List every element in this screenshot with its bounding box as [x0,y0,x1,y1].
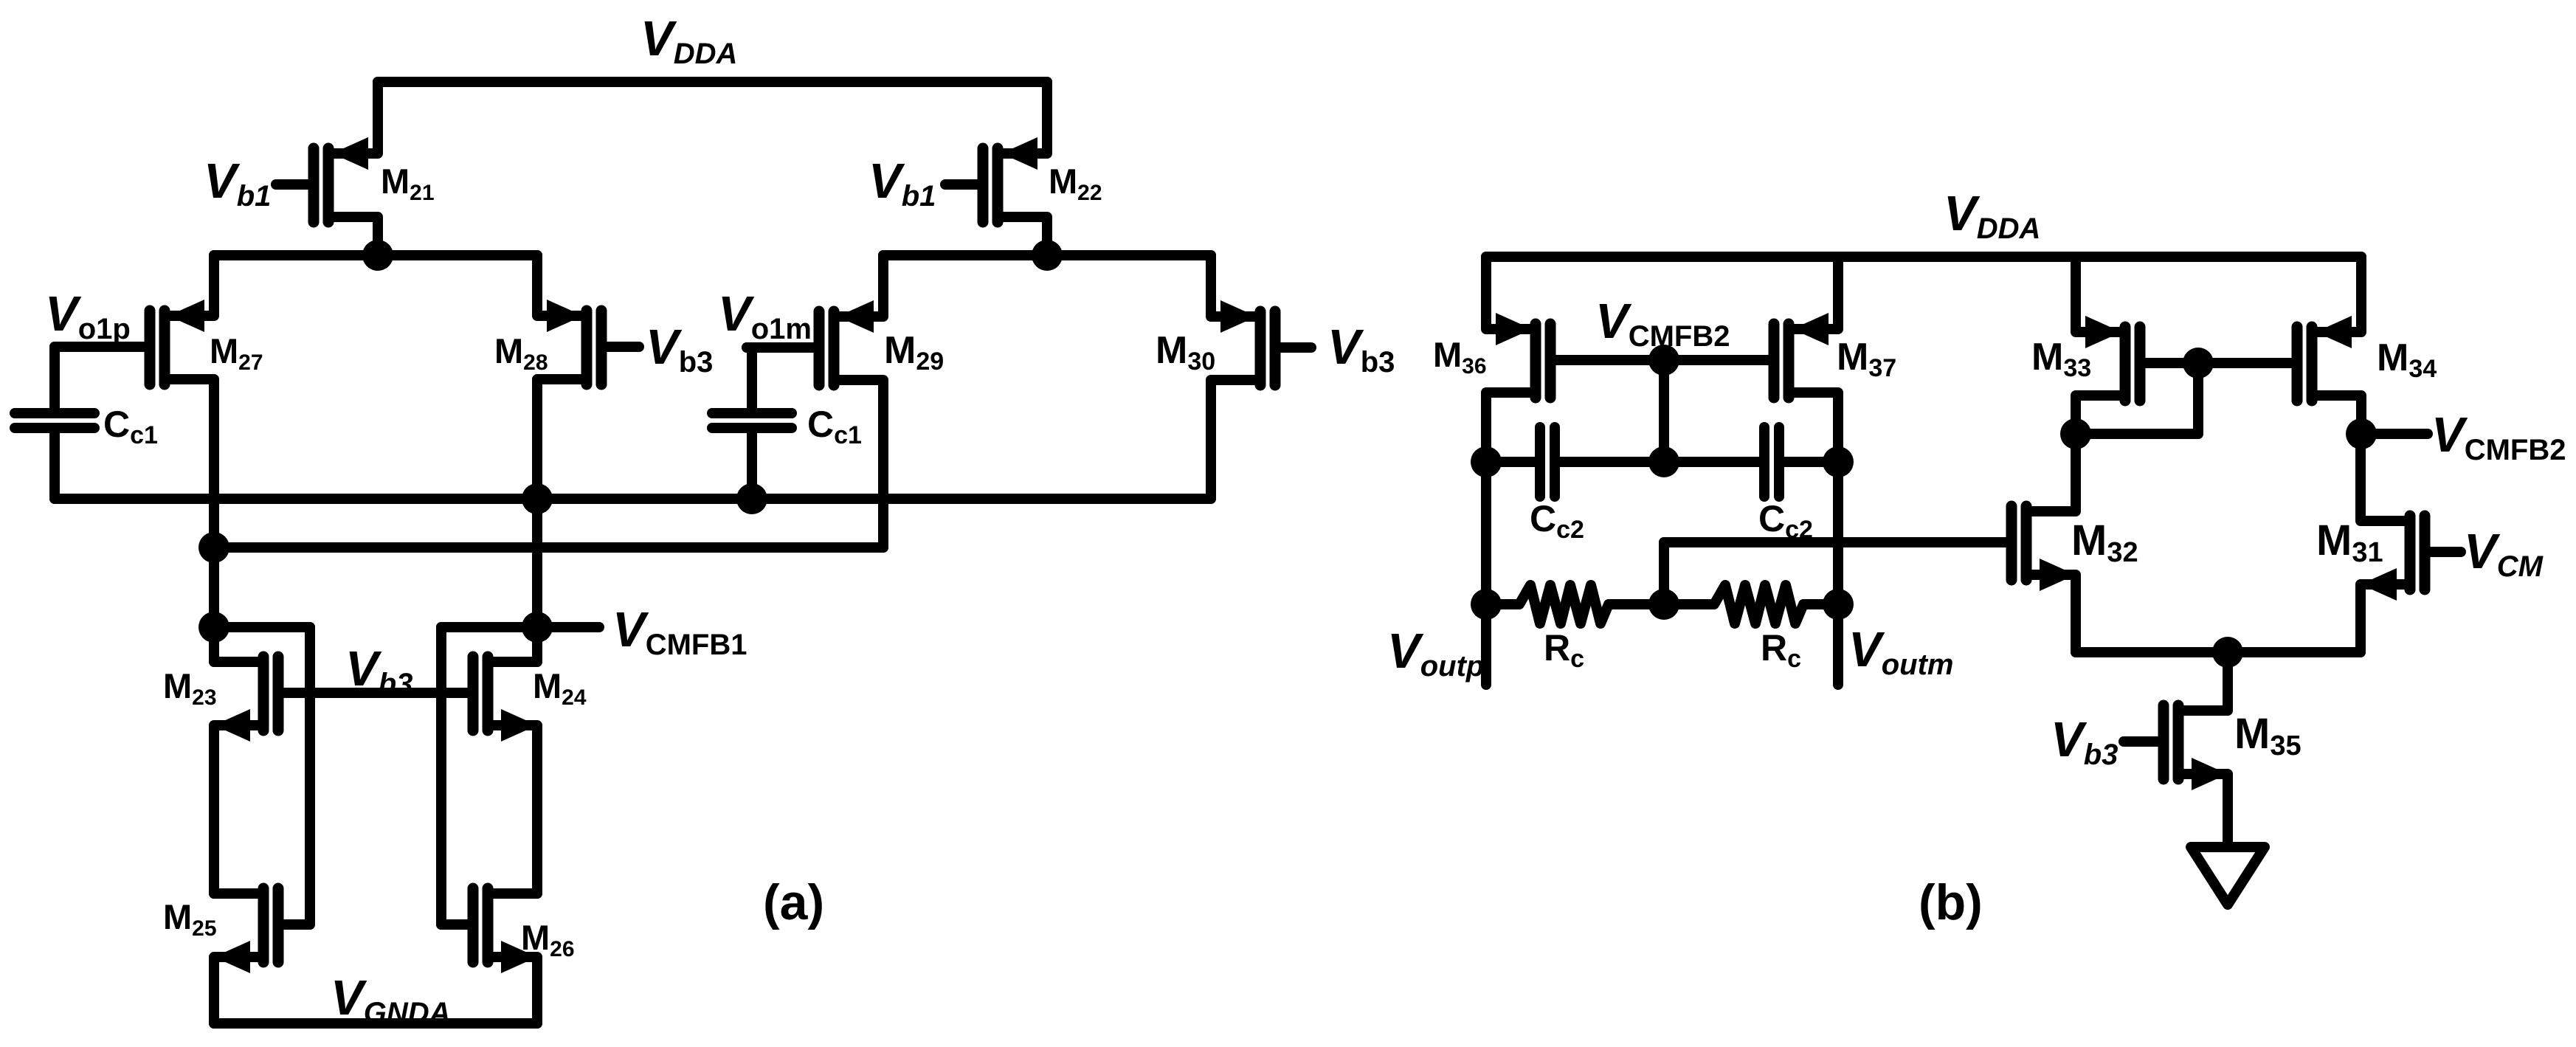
junction M24 drain / VCMFB1 node [522,612,553,643]
wire Rc midpoint to M32 gate (vertical) [1659,542,1669,604]
junction M34 drain / VCMFB2 output [2346,418,2377,449]
wire VDDA rail (a) [378,77,1047,87]
wire tail node [2076,647,2361,657]
junction Cc2 midpoint [1648,446,1679,477]
svg-text:(a): (a) [763,874,824,930]
transistor M21 [276,82,378,255]
capacitor Cc1 (right) [712,413,792,428]
wire M33 gate-drain link (horizontal) [2076,429,2198,439]
svg-text:(b): (b) [1919,874,1983,930]
wire VCMFB2 output stub [2361,429,2428,439]
wire Voutp column [1481,462,1491,685]
transistor M28 [537,255,639,662]
wire M23 drain to M25 gate link (horizontal) [214,622,310,632]
wire M33 gate-drain link (vertical) [2193,363,2203,434]
wire Voutp to Cc2 left [1486,457,1540,467]
junction M28 drain / output rail [522,483,553,514]
transistor M26 [441,888,537,1023]
wire Voutm column [1833,462,1843,685]
junction M27 drain / cross rail [198,532,229,563]
wire Cc2 left to Cc2 right [1555,457,1764,467]
wire VCMFB2 to Cc2 midpoint [1659,360,1669,462]
wire Vo1m to M29 gate [747,342,814,353]
junction M33 drain / M32 drain [2060,418,2091,449]
wire M26 gate link (vertical) [436,627,446,925]
wire Cc1 right to output rail [747,432,757,499]
junction tail node / M35 drain [2212,637,2243,668]
junction M21 drain / first-stage rail [362,240,393,271]
capacitor Cc2 (right) [1764,427,1779,497]
wire Cc2 right to Voutm [1779,457,1838,467]
resistor Rc (left) [1486,585,1664,623]
capacitor Cc1 (left) [15,413,94,428]
resistor Rc (right) [1664,585,1838,623]
transistor M24 [473,627,537,894]
junction M33-M34 gate node [2183,348,2214,379]
transistor M27 [55,255,214,662]
wire M24 drain to M26 gate link (horizontal) [441,622,537,632]
transistor M36 [1486,257,1664,462]
wire Vb3 between M23 and M24 gates [283,688,468,698]
junction M22 drain / second-stage rail [1032,240,1063,271]
transistor M37 [1664,257,1838,462]
junction Voutp / Rc [1471,589,1502,620]
wire Vo1m to Cc1 right [747,348,757,409]
transistor M34 [2198,257,2361,434]
junction VCMFB2 / M36-M37 gates [1648,345,1679,376]
wire cascode rail right (M29-M30 sources) [883,250,1211,260]
junction M23 drain node [198,612,229,643]
wire M25 gate link (vertical) [305,627,315,925]
wire VDDA rail (b) [1486,252,2361,262]
transistor M25 [214,888,310,1023]
transistor M30 [1211,255,1311,499]
wire Vo1p to Cc1 [49,347,60,409]
junction M36 drain / Cc2 row [1471,446,1502,477]
wire cascode rail left (M27-M28 sources) [214,250,537,260]
transistor M29 [747,255,883,547]
ground [2191,847,2265,905]
transistor M22 [945,82,1047,255]
wire VGNDA rail [214,1018,537,1029]
capacitor Cc2 (left) [1540,427,1555,497]
junction Voutm / Rc [1823,589,1854,620]
wire output rail Vo1m net [55,494,1211,504]
wire cross-couple rail Vo1p net [214,542,883,553]
wire Cc1 left to output rail [49,432,60,499]
transistor M31 [2361,434,2461,652]
transistor M32 [1664,434,2076,652]
transistor M33 [2076,257,2198,434]
junction Rc midpoint / M32 gate [1648,589,1679,620]
junction M37 drain / Cc2 row [1823,446,1854,477]
junction Cc1 right / output rail [736,483,767,514]
wire VCMFB1 stub [537,622,599,632]
transistor M35 [2124,652,2228,846]
transistor M23 [214,657,278,894]
